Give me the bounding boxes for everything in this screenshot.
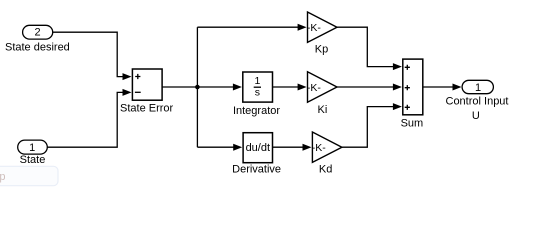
svg-text:-K-: -K- — [312, 142, 327, 154]
wire State Error output to junction — [162, 86, 197, 88]
wire mid rail to Integrator — [197, 84, 242, 91]
wire Integrator to Ki — [273, 84, 307, 91]
svg-text:du/dt: du/dt — [246, 142, 270, 154]
svg-text:2: 2 — [35, 27, 41, 39]
gain Kd — [312, 132, 342, 162]
junction dot — [195, 85, 200, 90]
wire inport2 to State Error plus — [53, 32, 132, 80]
derivative block — [243, 133, 272, 163]
wire top rail to Kp — [197, 24, 306, 31]
svg-text:State desired: State desired — [5, 42, 70, 54]
svg-text:State Error: State Error — [120, 102, 174, 114]
svg-text:Sum: Sum — [401, 117, 424, 129]
wire Ki to Sum input 2 — [337, 84, 402, 91]
svg-text:Control Input: Control Input — [446, 96, 509, 108]
svg-text:Ki: Ki — [318, 104, 328, 116]
svg-text:U: U — [472, 110, 480, 122]
svg-text:p: p — [0, 171, 6, 183]
svg-text:Integrator: Integrator — [233, 105, 280, 117]
sum block Sum — [403, 59, 423, 115]
sum block State Error — [132, 69, 162, 100]
svg-text:-K-: -K- — [307, 22, 322, 34]
svg-text:State: State — [20, 154, 46, 166]
wire Sum to outport — [423, 84, 462, 91]
wire Kp to Sum input 1 — [337, 27, 402, 70]
tooltip fragment — [0, 166, 58, 185]
gain Ki — [307, 72, 337, 102]
svg-text:Derivative: Derivative — [232, 164, 281, 176]
svg-text:1: 1 — [254, 75, 260, 87]
svg-text:s: s — [255, 87, 260, 99]
wire Kd to Sum input 3 — [342, 103, 402, 147]
wire Derivative to Kd — [273, 144, 312, 151]
gain Kp — [307, 12, 337, 42]
inport 2 — [23, 25, 53, 39]
svg-text:1: 1 — [29, 142, 35, 154]
integrator block — [243, 72, 273, 102]
outport 1 — [462, 80, 493, 94]
svg-text:Kp: Kp — [315, 44, 328, 56]
svg-text:1: 1 — [475, 82, 481, 94]
svg-text:-K-: -K- — [307, 82, 322, 94]
wire inport1 to State Error minus — [47, 89, 132, 147]
svg-text:Kd: Kd — [319, 164, 332, 176]
trunk wire vertical — [196, 27, 198, 147]
wire bottom rail to Derivative — [197, 144, 242, 151]
inport 1 — [18, 140, 48, 154]
